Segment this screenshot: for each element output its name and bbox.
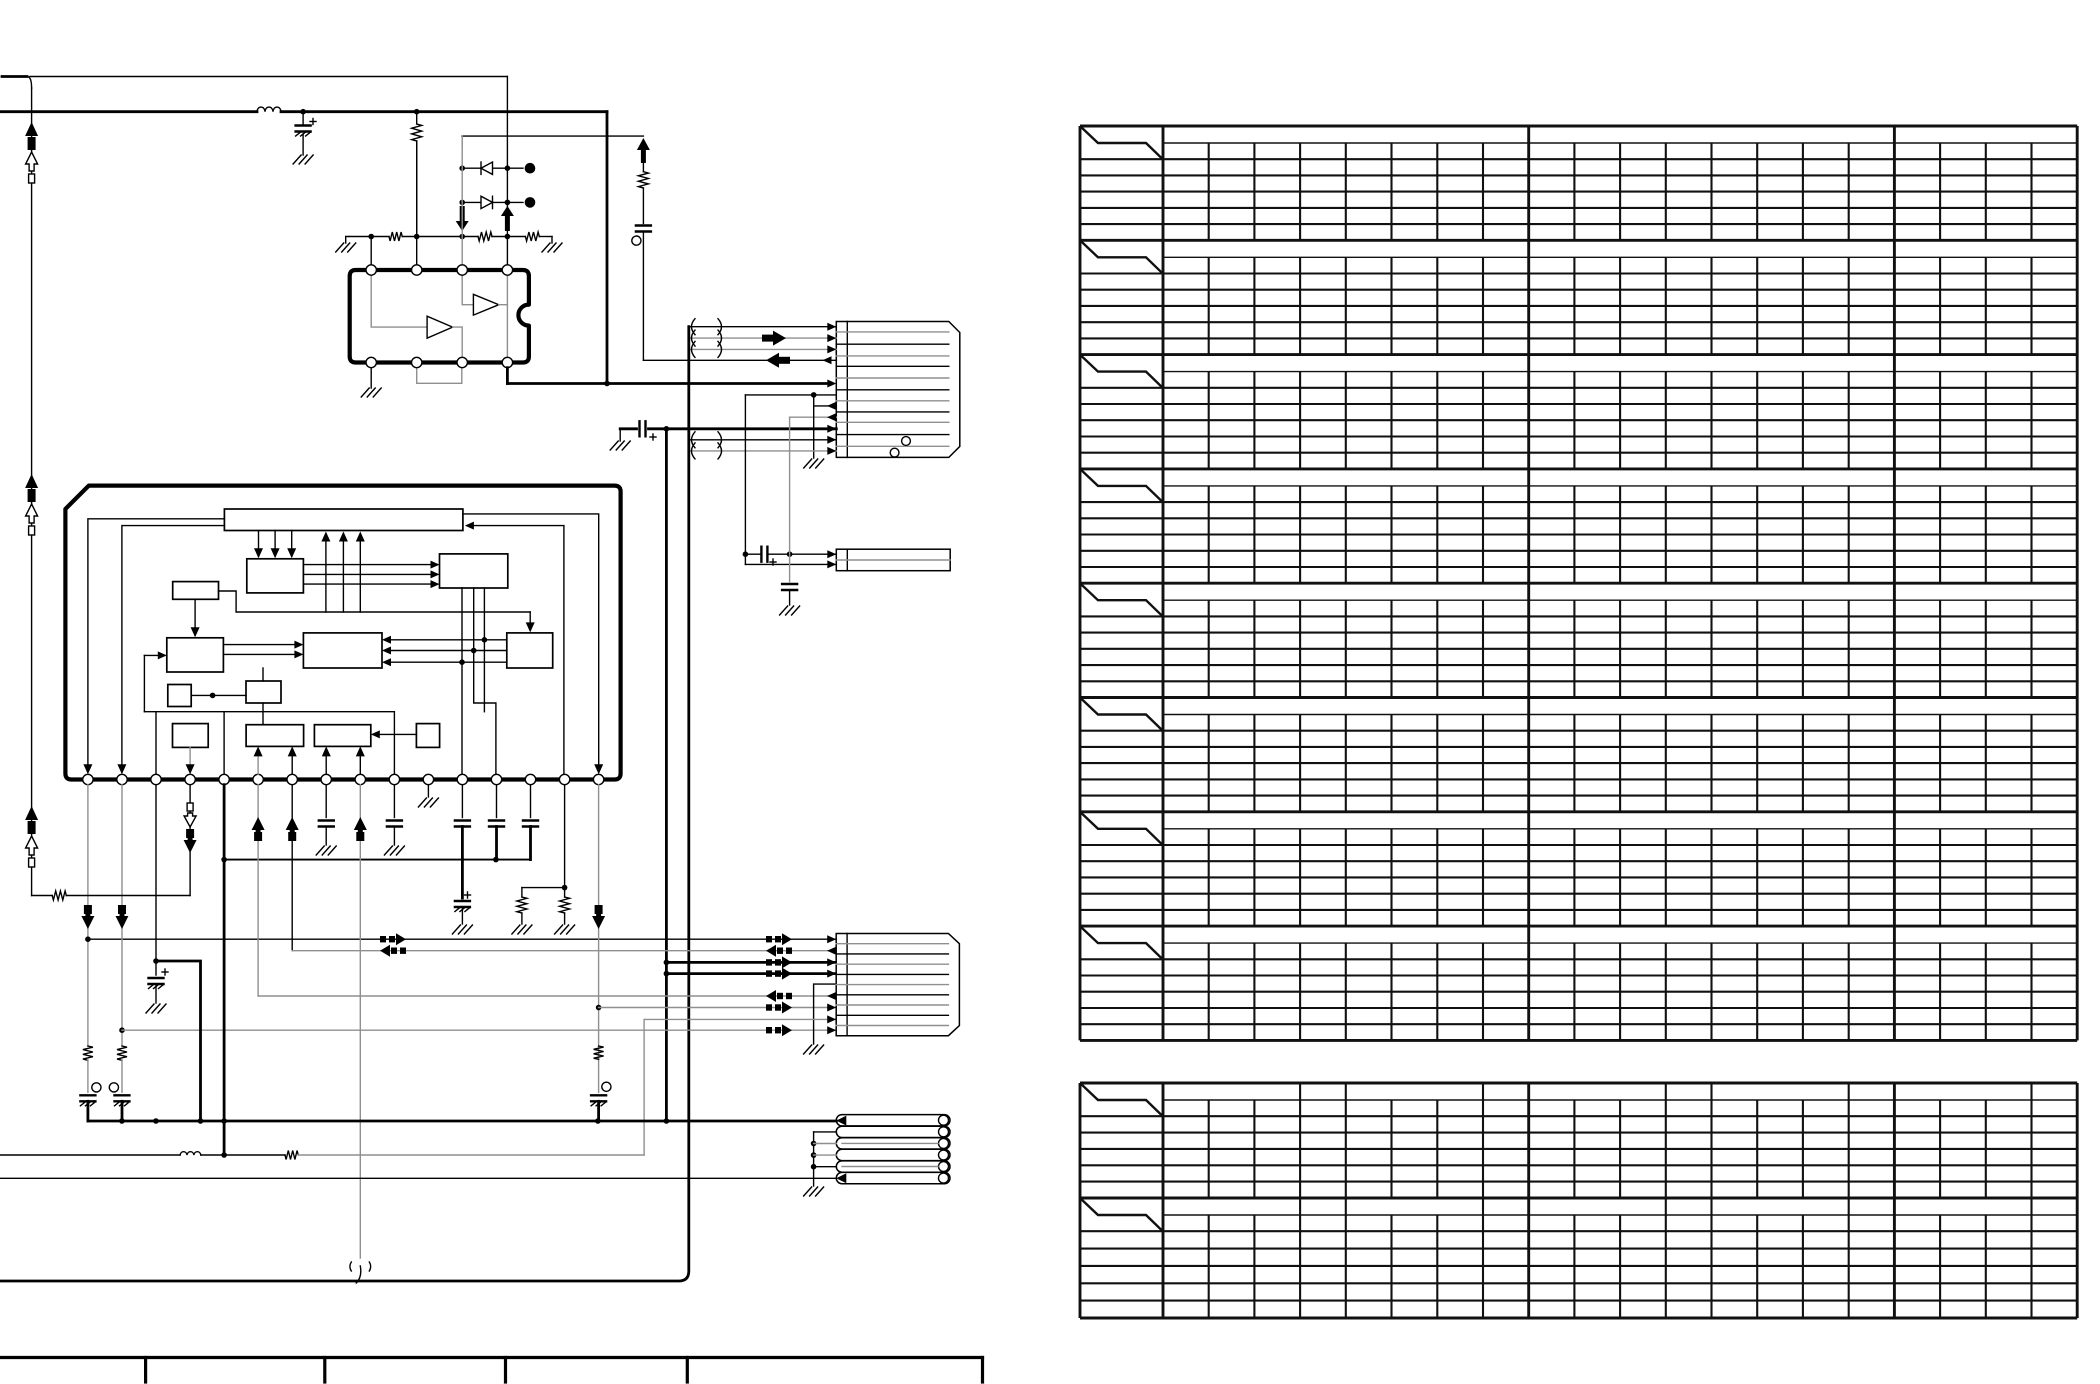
resistor R12 horizontal on pin4 line [52, 891, 66, 900]
wire: pin1 gray drop [87, 785, 89, 1046]
arrow: up cluster on pin7 wire [286, 817, 299, 830]
wire: IC1 internal input to buffer B [371, 272, 427, 327]
block: D driver inside U1 [507, 633, 553, 668]
title bar tick 3 [504, 1358, 507, 1383]
title bar tick 2 [323, 1358, 326, 1383]
wire: G down to S2 [262, 703, 264, 725]
wire: gray rail continuation to CN3 row8 dogleg [298, 1154, 644, 1156]
node: pin2 junction to CN3 row9 wire [119, 1027, 125, 1033]
test point circle pin16 chain [602, 1082, 611, 1091]
wire: CN2 row1 feed with capacitor [745, 553, 761, 555]
wire: input arrow into C left [144, 654, 164, 656]
wire: gray feedback loop below IC1 [417, 364, 462, 383]
wire: drop into D top [529, 612, 531, 630]
wire: CN3 row4 thick feed from x=666 bus [666, 972, 836, 975]
test point circle pin1 chain [92, 1083, 101, 1092]
resistor R3 on rail [478, 232, 492, 241]
block: C servo inside U1 [167, 638, 224, 672]
bottom title bar [0, 1356, 983, 1359]
wire: CN3 row6 rail y=996 [258, 995, 836, 997]
wire: pin1 chain to bottom bus [87, 1101, 90, 1121]
capacitor C10 pin1 chain [87, 1060, 89, 1092]
wire: pin12 cap to decoupling bus [461, 785, 463, 818]
wire: decoupling bus y=859.6 [224, 859, 530, 861]
pin circles IC U1 bottom row [83, 774, 93, 784]
wire: thick vertical bus x=666.4 [665, 429, 668, 1121]
wire: pin3 drop to cap [155, 785, 157, 975]
pin circles IC1 top [366, 265, 376, 275]
op-amp buffer B inside IC1 [427, 316, 453, 338]
wire: G up into E bottom [262, 668, 264, 681]
wire: internal service rail y=711.7 [144, 711, 394, 713]
capacitor C12 electrolytic pin3 [149, 977, 164, 979]
wire: S1 output down to pin4 [189, 747, 191, 772]
table 1 section 7 [1080, 810, 2077, 813]
ground below C12 [146, 1004, 154, 1013]
wire: register to block A (3 arrows down) [258, 531, 260, 557]
arrow: flow cluster down on pin16 wire [595, 905, 603, 914]
wire: IC1 internal pin4 rail [506, 272, 508, 360]
table 1 section 5 [1080, 582, 2077, 585]
connector CN3 row separators [836, 943, 948, 945]
arrow: current flow up at x=507 [505, 215, 510, 231]
wire: C12 to ground [155, 984, 157, 1003]
connector CN1 keying circles [902, 437, 911, 446]
op-amp IC1 package outline with notch [350, 270, 529, 363]
node: pin16 junction to CN3 row7 wire [596, 1005, 602, 1011]
wire: pin10 up to service rail [393, 712, 395, 775]
wire: F to G link [191, 694, 246, 696]
diode D2 row (points right) with output dot [462, 201, 523, 203]
diode D1 row (points left) with output dot [462, 167, 523, 169]
wire: nested feed pin2 to top register [122, 526, 224, 772]
test point circle at x=636 [632, 236, 641, 245]
resistor R13 to ground [521, 888, 523, 897]
node: bottom bus junctions [119, 1118, 125, 1124]
wire: pin6 drop to CN3 row6 [257, 785, 259, 996]
wire: IC1 internal input to buffer A [462, 272, 473, 305]
resistor R15 pin16 chain [594, 1046, 604, 1059]
title bar right end tick [981, 1358, 984, 1383]
wire: pin14 cap to decoupling bus [530, 785, 532, 818]
connector CN4 pin circles [939, 1115, 949, 1125]
wire: x=643 down to CN1 row4 [642, 232, 644, 361]
wire: pin4 drop [189, 785, 191, 896]
node: pin3 thick branch junction [153, 958, 159, 964]
connector CN2 body [836, 549, 950, 571]
node: pin5 junctions [221, 857, 227, 863]
connector CN1 pin column divider [846, 322, 848, 458]
wire: pin3 thick branch to bottom bus [156, 961, 201, 1121]
wire: CN4 pin5 stub [811, 1164, 817, 1170]
block: E logic center inside U1 [303, 633, 382, 668]
table 1 section 6 [1080, 696, 2077, 699]
resistor R11 on pin2 chain [117, 1046, 127, 1060]
wire: CN1 row3 with cable marks [689, 348, 837, 350]
table 2 section 1 [1080, 1082, 2077, 1085]
wire: pin8 cap to ground [325, 785, 327, 818]
wire: pin15 drop to resistor pair [564, 785, 566, 888]
wire: pin5 thick drop to inductor rail [223, 785, 226, 1155]
wire: pin2 gray drop [121, 785, 123, 1046]
wire: CN4 pin1 thick bottom bus y=1121 [88, 1120, 836, 1123]
arrow: current flow down at x=462 [460, 206, 465, 222]
block: G small inside U1 [246, 681, 281, 703]
wire: thin rail y=136 from IC1 pin3 corner [462, 135, 644, 137]
wire: inductor rail y=1155 [0, 1154, 180, 1156]
inductor L1 on bus [257, 107, 281, 112]
wire: CN3 row9 long rail y=1030 [122, 1029, 836, 1031]
arrow: flow left on CN3 row2 near connector [786, 948, 792, 954]
pin circles IC1 bottom [366, 357, 376, 367]
node: junction x=745 cap tap [743, 551, 749, 557]
capacitor C2 at x=643 [636, 224, 651, 226]
block: S2 output stage inside U1 [246, 725, 304, 747]
ground below pin10 cap [384, 846, 392, 855]
wire: pin13 cap to decoupling bus [496, 785, 498, 818]
wire: IC1 output thick to CN1 row6 [506, 368, 509, 384]
wire: CN1 row2 with cable marks and big right-flow arrow [689, 337, 837, 339]
resistor R4 on rail [525, 232, 539, 241]
wire: main thick bus y=112 [0, 110, 257, 113]
connector CN4 pill contacts [836, 1115, 950, 1126]
wire: pin6 up into S2 [257, 749, 259, 774]
wire: pin5 up to service rail [223, 712, 225, 775]
arrow: flow right on CN3 row1 near connector [766, 936, 772, 942]
ground at left of row10 cap [619, 429, 621, 441]
wire: pin7 up into S2 [291, 749, 293, 774]
block: B osc inside U1 [173, 582, 219, 600]
wire: pin7 drop to CN3 row2 [291, 785, 293, 951]
wire: CN1 row12 with cable marks [689, 450, 837, 452]
wire: CN1 row7 feed from x=745 [745, 394, 836, 396]
wire: C to E (2 arrows) [223, 644, 301, 646]
ground stub pin11 [427, 785, 429, 797]
wire: CN4 pin4 stub [811, 1152, 817, 1158]
block: S3 output stage inside U1 [314, 725, 370, 747]
table 1 section 4 [1080, 467, 2077, 470]
arrow: up cluster on pin9 wire [354, 817, 367, 830]
arrow: flow cluster down on pin2 wire [118, 905, 126, 914]
table 1 section 2 [1080, 239, 2077, 242]
node: junction x=789.6 on CN2 row1 [787, 551, 793, 557]
table 1 section 8 [1080, 925, 2077, 928]
connector CN1 body [836, 322, 960, 458]
wire: rail to resistor [201, 1154, 285, 1156]
block: S4 small stage inside U1 [416, 724, 439, 748]
block: A decoder inside U1 [247, 559, 304, 593]
wire: buffer A output to pin4 rail [499, 304, 508, 306]
wire: rail to IC1 pins [370, 237, 372, 266]
wire: CN1 row10 thick supply with capacitor [620, 427, 636, 430]
wire: x=745.4 vertical to CN2 [744, 395, 746, 565]
title bar tick 4 [686, 1358, 689, 1383]
ground below CN4 bleed rail [804, 1187, 812, 1196]
arrow: hollow cluster down on pin4 wire [187, 803, 193, 811]
ground below C4 [780, 606, 788, 615]
wire: pin10 cap to ground [393, 785, 395, 818]
wire: pin15 internal column to register [467, 526, 564, 775]
capacitor C1 (electrolytic to ground) [302, 112, 304, 126]
block: S1 output stage inside U1 [173, 724, 209, 748]
wire: CN1 row1 with cable marks [689, 326, 837, 328]
node: junction x=607 on output wire [604, 381, 610, 387]
wire: thin top rail y=77 [30, 76, 507, 78]
arrow: solid cluster down on pin4 wire [186, 829, 194, 838]
block: H processor inside U1 [440, 554, 508, 588]
arrowhead into CN1 row 6 [827, 380, 836, 388]
wire: C4 to ground [789, 590, 791, 605]
resistor R1 (vertical from bus) [416, 112, 418, 124]
wire: pin3 stub up inside U1 [155, 712, 157, 775]
resistor R14 to ground [564, 888, 566, 897]
arrow: flow cluster down on pin1 wire [84, 905, 92, 914]
arrow: flow cluster 1 on left rail [25, 122, 38, 136]
capacitor C15 pin16 chain [591, 1094, 606, 1096]
node: junction on row7 at x=813.7 [811, 392, 817, 398]
wire: CN1 row8 stub from bleed rail [814, 405, 837, 407]
wire: resistor pair top link [522, 887, 565, 889]
wire: pin4 corner to left resistor [66, 895, 190, 897]
wire: resistor to left rail x=31.6 [32, 895, 53, 897]
node: diode junctions on x=462 wire [459, 165, 465, 171]
ground below pin12 chain [452, 925, 460, 934]
arrow: big left-flow on row4 wire [778, 357, 790, 364]
wire: CN3 row1 long rail y=939 [88, 938, 836, 940]
wire: CN1 row9 stub from x=789.6 [790, 416, 837, 418]
wire: gray vertical x=789.6 from CN1 row9 [789, 417, 791, 581]
wire: vertical drop x=507 to diodes/IC1 [506, 77, 508, 266]
resistor R5 vertical at x=643 [642, 163, 644, 172]
block: register top-wide inside U1 [224, 509, 463, 531]
table 1 section 3 [1080, 353, 2077, 356]
connector CN3 body [836, 934, 959, 1036]
node: junction row4 on x=666 bus [664, 971, 670, 977]
IC U1 main package outline (beveled corner) [65, 486, 620, 780]
resistor R10 on pin1 chain [83, 1046, 93, 1060]
capacitor C3 inline on row10 [638, 421, 640, 436]
wire: gray contact lines in CN4 pills [842, 1142, 938, 1144]
wire: CN4 pin6 rail y=1178 [0, 1177, 836, 1179]
arrow: flow cluster 3 on left rail [25, 806, 38, 820]
wire: S4 to S3 arrow [373, 733, 416, 735]
wire: vertical thick drop x=607 [606, 112, 609, 384]
node: bus junction at pin13 cap [493, 857, 499, 863]
node: junction row10 and x=666 rail [664, 426, 670, 432]
connector CN1 row separators [836, 331, 949, 333]
wire: pin9 up into S3 [359, 749, 361, 774]
wire: block B down into C [194, 599, 196, 635]
resistor R16 on rail [285, 1151, 298, 1160]
inductor L2 on rail [180, 1152, 201, 1155]
ground below bleed rail [804, 459, 812, 468]
test point circle pin2 chain [109, 1083, 118, 1092]
node: diode junctions on x=507 wire [505, 165, 511, 171]
wire: vertical x=144 down to service rail [143, 655, 145, 711]
wire: CN4 pin3 stub [811, 1141, 817, 1147]
wire: H bottom vertical to pin12 [461, 588, 463, 774]
wire: top-left hook feed [2, 75, 27, 78]
ground below pin8 cap [316, 846, 324, 855]
wire: CN3 row5 feed from bleed rail corner [814, 984, 837, 1044]
node: x=666 bus end on bottom bus [664, 1118, 670, 1124]
wire: CN1 row11 with cable marks [689, 439, 837, 441]
break symbol at pin9 bottom [350, 1262, 351, 1271]
ground right end of rail [551, 237, 553, 244]
wire: register right output to pin16 [463, 514, 599, 772]
ground below C1 [293, 155, 301, 164]
wire: H bottom vertical dogleg to pin13 [474, 588, 496, 774]
node: rail junctions [368, 234, 374, 240]
wire: CN3 row8 dogleg rail [644, 1019, 836, 1155]
wire: pin2 chain to bottom bus [121, 1101, 124, 1121]
wire: CN4 bleed rail x=813.6 [813, 1132, 815, 1186]
wire: buffer B output to pin3 bottom [453, 327, 463, 360]
wire: pin8 up into S3 [325, 749, 327, 774]
capacitor C11 pin2 chain [121, 1060, 123, 1092]
wire: pin9 gray drop to bottom bus break [359, 785, 361, 1258]
resistor R2 on rail [389, 232, 402, 241]
wire: block D to E (3 lines) [385, 639, 507, 641]
wire: three returns up into register [325, 534, 327, 612]
block: F small inside U1 [168, 685, 191, 707]
wire: nested feed pin1 to top register [88, 519, 225, 772]
op-amp buffer A inside IC1 [473, 294, 498, 315]
arrow: up cluster on pin6 wire [252, 817, 265, 830]
title bar tick 1 [144, 1358, 147, 1383]
arrowhead out of CN1 row 4 [823, 356, 832, 364]
wire: bleed rail x=813.7 to ground [813, 395, 815, 458]
arrowhead into CN1 row 10 [827, 425, 836, 433]
wire: gray corner segment to pin3 [461, 136, 463, 145]
wire: block A to H (3 lines) [303, 564, 437, 566]
table 2 section 2 [1080, 1197, 2077, 1200]
wire: pin16 gray drop [598, 785, 600, 1093]
wire: bias resistor rail y=236.5 [349, 236, 390, 238]
wire: CN3 row7 rail y=1008 [599, 1007, 837, 1009]
wire: pin16 chain to bottom bus [597, 1101, 600, 1121]
wire: CN3 row3 thick feed from x=666 bus [666, 961, 836, 964]
ground below CN3 bleed rail [804, 1045, 812, 1054]
node: junction row3 on x=666 bus [664, 960, 670, 966]
wire: thick vertical bus x=688.8 down to bottom-left rail [0, 327, 689, 1281]
wire: CN1 row4 feed [643, 359, 836, 361]
node: pin1 junction to CN3 row1 wire [85, 936, 91, 942]
node: bus junction at R1 [414, 109, 420, 115]
wire: left rail x=31.6 vertical [31, 88, 33, 896]
node: bus junction at cap C1 [300, 109, 306, 115]
wire: block B output dogleg to D [219, 591, 531, 612]
connector CN3 pin column divider [846, 934, 848, 1036]
wire: CN2 row2 feed [745, 563, 836, 565]
table 1 section 1 [1080, 125, 2077, 128]
ground left end of rail [346, 236, 349, 238]
wire: pin12 electrolytic chain [461, 860, 464, 898]
node: junction on F-G link [210, 693, 216, 699]
ground below IC1 pin 5 [370, 368, 372, 388]
node: resistor pair junction [562, 885, 568, 891]
wire: CN4 pin2 stub [814, 1131, 837, 1133]
wire: H bottom vertical third [483, 588, 485, 712]
arrow: flow cluster 2 on left rail [25, 474, 38, 488]
wire: CN3 row2 rail y=951 [292, 950, 836, 952]
arrow: flow up into y=136 rail [641, 149, 646, 163]
capacitor C4 below CN2 tap [782, 583, 797, 585]
node: crossings of H verticals on D-E lines [482, 637, 488, 643]
